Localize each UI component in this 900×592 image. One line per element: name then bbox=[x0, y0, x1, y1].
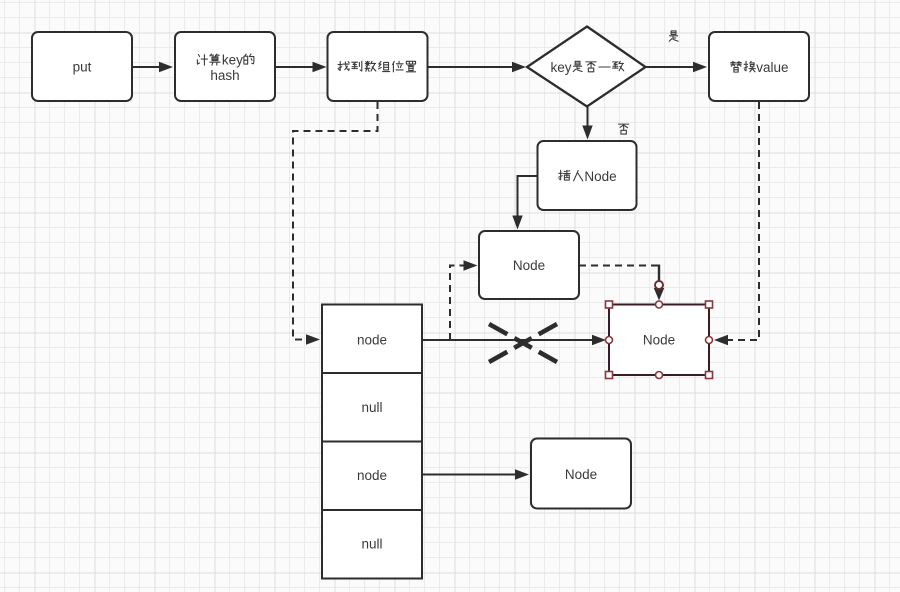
box compute key hash bbox=[175, 32, 275, 101]
wire diamond to insert-node bbox=[582, 107, 592, 140]
box put bbox=[32, 32, 132, 101]
svg-text:hash: hash bbox=[210, 68, 239, 83]
svg-text:Node: Node bbox=[584, 169, 616, 184]
wire array cell3 to node-lower bbox=[422, 469, 529, 479]
dashed wire junction to node-upper bbox=[450, 260, 478, 340]
svg-text:key: key bbox=[222, 52, 243, 67]
array table bbox=[322, 305, 422, 579]
svg-text:put: put bbox=[73, 60, 92, 75]
box insert node bbox=[538, 141, 637, 210]
svg-text:null: null bbox=[361, 400, 382, 415]
wire array cell1 to node-selected bbox=[422, 335, 606, 345]
wire insert-node to node-upper bbox=[512, 176, 537, 230]
box node selected bbox=[609, 305, 709, 376]
dashed wire node-upper to node-selected top bbox=[579, 265, 664, 301]
svg-text:Node: Node bbox=[643, 333, 675, 348]
decision diamond key equal bbox=[527, 27, 646, 107]
dashed wire find-slot down to array bbox=[293, 102, 378, 345]
svg-text:node: node bbox=[357, 333, 387, 348]
endpoint circle marker bbox=[655, 281, 663, 289]
box node upper bbox=[479, 231, 579, 299]
box find array slot bbox=[328, 32, 428, 101]
wire put to hash bbox=[132, 62, 173, 72]
svg-text:Node: Node bbox=[513, 258, 545, 273]
box replace value bbox=[709, 32, 809, 101]
svg-text:key: key bbox=[551, 60, 572, 75]
label yes bbox=[669, 31, 678, 41]
dashed wire replace-value to node-selected right bbox=[714, 102, 759, 345]
svg-text:Node: Node bbox=[565, 467, 597, 482]
wire hash to find-slot bbox=[275, 62, 327, 72]
wire diamond to replace-value bbox=[646, 62, 708, 72]
X cross-out mark bbox=[489, 324, 557, 362]
box node lower bbox=[531, 439, 631, 509]
selection handles bbox=[606, 301, 713, 379]
label no bbox=[619, 124, 629, 134]
wire find-slot to diamond bbox=[428, 62, 527, 72]
svg-text:node: node bbox=[357, 468, 387, 483]
svg-text:value: value bbox=[756, 60, 788, 75]
svg-text:null: null bbox=[361, 537, 382, 552]
